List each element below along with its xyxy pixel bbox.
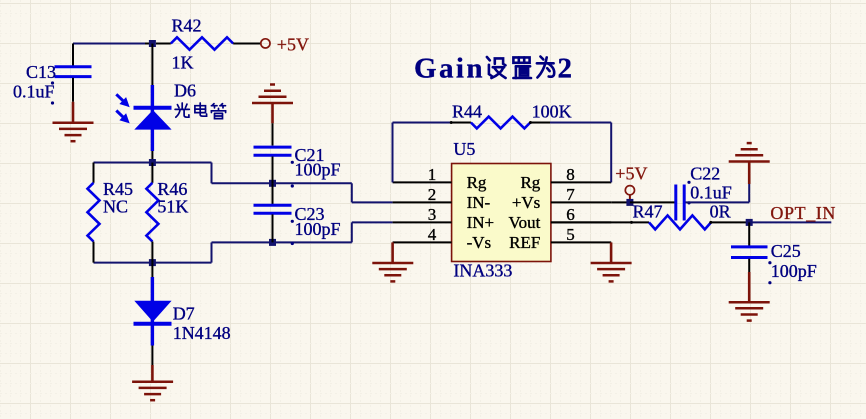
wire — [212, 241, 352, 243]
pin name Rg — [520, 173, 540, 192]
svg-text:1K: 1K — [172, 53, 194, 73]
resistor R44 — [450, 117, 550, 129]
svg-text:6: 6 — [566, 205, 575, 224]
R44 labels — [452, 102, 572, 122]
ground (above C22, inverted) — [729, 143, 770, 184]
U5 part number INA333 — [453, 261, 512, 281]
R42 labels — [172, 16, 202, 73]
ground (C13) — [53, 102, 94, 141]
svg-text:51K: 51K — [157, 197, 188, 217]
title CJK 为 — [537, 57, 554, 78]
svg-text:Rg: Rg — [467, 173, 487, 192]
title CJK 设 — [487, 57, 506, 78]
wire — [630, 201, 675, 203]
svg-text:2: 2 — [558, 53, 573, 85]
capacitor C23 — [254, 205, 292, 213]
svg-text:IN-: IN- — [467, 193, 491, 212]
pin 7 — [551, 201, 611, 203]
svg-text:D6: D6 — [174, 81, 196, 101]
svg-text:NC: NC — [103, 197, 128, 217]
pin 2 number — [428, 185, 437, 204]
D6 CJK label 光 — [175, 103, 189, 117]
svg-text:R42: R42 — [172, 16, 202, 36]
wire — [550, 122, 611, 124]
D6 labels — [174, 81, 196, 101]
capacitor C25 — [731, 247, 768, 258]
pin 7 number — [566, 185, 575, 204]
svg-text:3: 3 — [428, 205, 437, 224]
svg-text:0.1uF: 0.1uF — [690, 183, 732, 203]
wire — [749, 221, 831, 223]
svg-text:R44: R44 — [452, 102, 482, 122]
capacitor C13 — [55, 67, 92, 77]
op-amp U5 body — [452, 164, 551, 262]
pin 8 number — [566, 165, 575, 184]
wire — [748, 259, 750, 272]
svg-text:+Vs: +Vs — [512, 193, 540, 212]
D6 CJK label 管 — [211, 104, 225, 119]
wire — [151, 151, 153, 163]
resistor R47 — [551, 215, 749, 229]
C23 labels — [291, 204, 341, 245]
wire — [393, 122, 452, 124]
wire — [94, 162, 212, 164]
pin 1 — [393, 181, 452, 183]
title text 2 — [558, 53, 573, 85]
svg-text:5: 5 — [566, 225, 575, 244]
wire — [212, 182, 352, 184]
C25 labels — [768, 241, 816, 285]
svg-text:100pF: 100pF — [295, 159, 341, 179]
resistor R46 — [146, 163, 158, 263]
capacitor C22 — [676, 185, 684, 221]
net label OPT_IN — [770, 203, 836, 223]
wire — [352, 221, 393, 223]
wire — [392, 123, 394, 183]
wire — [211, 242, 213, 262]
svg-text:Vout: Vout — [508, 213, 540, 232]
wire — [72, 78, 74, 102]
node C (C21 junction) — [269, 180, 276, 187]
D7 labels — [173, 304, 231, 344]
diode D7 — [134, 277, 172, 346]
wire — [351, 222, 353, 242]
svg-text:+5V: +5V — [277, 34, 309, 54]
ground (above C21, inverted) — [252, 85, 293, 124]
svg-text:INA333: INA333 — [453, 261, 512, 281]
svg-text:C22: C22 — [690, 163, 720, 183]
resistor R42 — [156, 37, 261, 49]
power +5V (right) — [615, 163, 647, 199]
wire — [351, 183, 353, 202]
svg-text:+5V: +5V — [615, 163, 647, 183]
pin 4 number — [428, 225, 437, 244]
R46 labels — [157, 179, 188, 217]
pin 2 — [393, 201, 452, 203]
svg-text:0R: 0R — [710, 202, 731, 222]
C13 label — [13, 62, 56, 105]
wire — [73, 43, 145, 45]
svg-text:D7: D7 — [173, 304, 195, 324]
pin name +Vs — [512, 193, 540, 212]
wire — [145, 43, 152, 45]
pin 4 — [393, 241, 452, 243]
resistor R45 — [88, 163, 100, 263]
pin 1 number — [428, 165, 437, 184]
svg-text:IN+: IN+ — [467, 213, 495, 232]
R45 labels — [103, 179, 133, 217]
wire — [211, 163, 213, 184]
node A (C13/R42/D6 junction) — [149, 40, 156, 47]
svg-text:0.1uF: 0.1uF — [13, 82, 55, 102]
svg-text:1N4148: 1N4148 — [173, 323, 231, 343]
svg-text:100K: 100K — [532, 102, 572, 122]
ground (C25) — [729, 272, 770, 321]
pin name Vout — [508, 213, 540, 232]
wire — [94, 262, 212, 264]
svg-text:8: 8 — [566, 165, 575, 184]
svg-text:100pF: 100pF — [295, 219, 341, 239]
wire — [748, 222, 750, 245]
node G (OPT_IN junction) — [746, 219, 753, 226]
D6 light arrow 2 — [116, 111, 129, 124]
wire — [272, 183, 274, 204]
ground (D7) — [132, 365, 173, 400]
pin 5 number — [566, 225, 575, 244]
svg-text:4: 4 — [428, 225, 437, 244]
wire — [151, 44, 153, 86]
pin name IN- — [467, 193, 491, 212]
pin name REF — [509, 233, 540, 252]
wire — [151, 263, 153, 277]
D6 light arrow 1 — [116, 94, 129, 107]
title text Gain — [414, 53, 485, 85]
svg-text:Gain: Gain — [414, 53, 485, 85]
svg-text:1: 1 — [428, 165, 437, 184]
wire — [272, 123, 274, 145]
svg-text:U5: U5 — [453, 139, 475, 159]
photodiode D6 — [134, 85, 172, 151]
wire — [72, 44, 74, 66]
node F (+5V junction) — [626, 199, 633, 206]
wire — [611, 201, 630, 203]
wire — [272, 157, 274, 184]
pin 6 — [551, 221, 611, 223]
wire — [610, 123, 612, 183]
wire — [352, 201, 393, 203]
D6 CJK label 电 — [195, 103, 207, 116]
svg-text:2: 2 — [428, 185, 437, 204]
ground (pin 5 REF) — [591, 242, 632, 281]
svg-text:R47: R47 — [633, 202, 663, 222]
pin 6 number — [566, 205, 575, 224]
U5 designator — [453, 139, 475, 159]
pin name -Vs — [467, 233, 492, 252]
svg-text:-Vs: -Vs — [467, 233, 492, 252]
pin 5 — [551, 241, 611, 243]
C21 labels — [291, 145, 341, 188]
wire — [272, 214, 274, 242]
svg-text:100pF: 100pF — [771, 261, 817, 281]
pin name Rg — [467, 173, 487, 192]
svg-text:C25: C25 — [771, 241, 801, 261]
node D (R45/R46 bottom junction) — [149, 259, 156, 266]
C22 labels — [687, 163, 731, 204]
pin name IN+ — [467, 213, 495, 232]
node B (D6/R45/R46 junction) — [149, 159, 156, 166]
capacitor C21 — [254, 147, 292, 155]
R47 labels — [633, 202, 731, 222]
svg-text:OPT_IN: OPT_IN — [770, 203, 836, 223]
svg-text:7: 7 — [566, 185, 575, 204]
wire — [748, 184, 750, 202]
title CJK 置 — [513, 57, 531, 78]
pin 3 number — [428, 205, 437, 224]
wire — [151, 346, 153, 366]
pin 3 — [393, 221, 452, 223]
svg-text:Rg: Rg — [520, 173, 540, 192]
svg-text:C13: C13 — [26, 62, 56, 82]
pin 8 — [551, 181, 611, 183]
wire — [686, 201, 750, 203]
power +5V (top) — [261, 34, 309, 54]
node E (C23 junction) — [269, 239, 276, 246]
ground (pin 4 -Vs) — [372, 242, 413, 281]
svg-text:REF: REF — [509, 233, 540, 252]
